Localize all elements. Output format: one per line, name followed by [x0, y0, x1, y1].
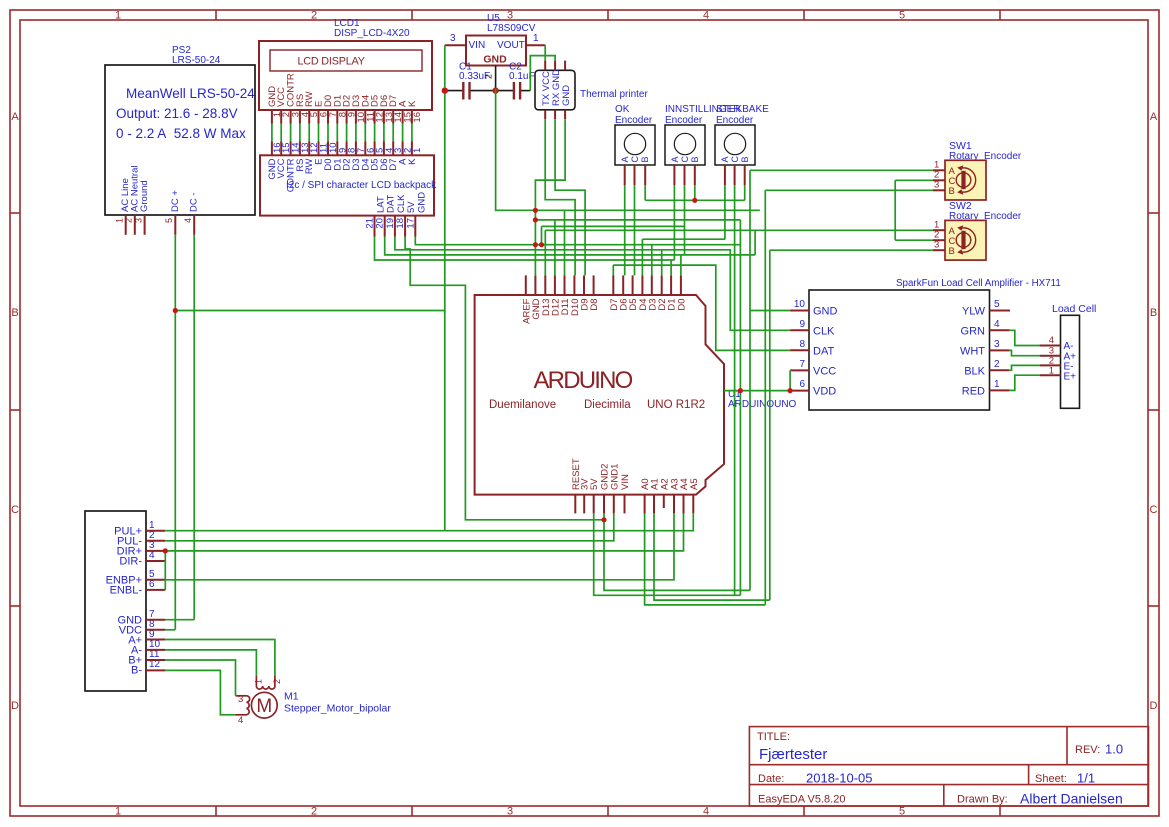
svg-text:A: A	[670, 156, 680, 162]
junction dot at U5 GND / C1 / C2	[492, 87, 498, 93]
wire encoder2 A	[673, 185, 675, 260]
svg-text:K: K	[407, 158, 418, 165]
PS2 pin 2	[124, 215, 135, 235]
svg-text:Fjærtester: Fjærtester	[759, 746, 827, 763]
svg-text:M1: M1	[284, 691, 299, 703]
svg-text:D8: D8	[589, 299, 600, 311]
svg-text:16: 16	[412, 112, 423, 123]
svg-text:2018-10-05: 2018-10-05	[806, 771, 873, 786]
wire D11 column	[564, 210, 566, 275]
wire DC- vertical	[193, 235, 195, 620]
svg-text:CLK: CLK	[813, 326, 835, 338]
power supply PS2	[105, 45, 255, 235]
wire D1 column	[670, 260, 672, 275]
svg-text:VOUT: VOUT	[497, 40, 525, 51]
wire encoder1 C to D5	[634, 185, 636, 275]
wire DIR+ to A4	[165, 513, 683, 551]
svg-text:7: 7	[799, 359, 805, 370]
encoder OK	[615, 104, 655, 185]
svg-text:2: 2	[994, 359, 1000, 370]
node VDD right	[788, 388, 793, 393]
wire PUL- to GND1	[165, 513, 614, 540]
svg-text:TITLE:: TITLE:	[757, 731, 790, 743]
svg-text:4: 4	[994, 319, 1000, 330]
svg-text:B-: B-	[131, 665, 142, 677]
thermal top stubs	[545, 61, 565, 71]
PS2 pin 4	[183, 215, 194, 235]
junction dot at U5 VIN / C1	[442, 87, 448, 93]
svg-text:0 - 2.2 A 52.8 W Max: 0 - 2.2 A 52.8 W Max	[116, 126, 246, 141]
svg-text:2: 2	[311, 10, 317, 22]
wire backpack LAT21 row	[375, 237, 675, 261]
wire A+ to motor pin2	[165, 640, 275, 676]
wire SW1 pin3 row	[765, 189, 933, 191]
wire SW2 pin3 long column	[769, 250, 771, 600]
wire backpack 5V to arduino GND2	[405, 237, 604, 520]
node GND row 210	[533, 208, 538, 213]
svg-text:GRN: GRN	[961, 326, 986, 338]
svg-text:A: A	[11, 111, 19, 123]
svg-text:1: 1	[412, 148, 423, 153]
backpack pin names top (blue vertical)	[267, 158, 418, 192]
svg-text:VDD: VDD	[813, 386, 836, 398]
wire A1 row	[654, 513, 770, 600]
wire LCD to backpack x16	[272, 124, 412, 142]
svg-text:3: 3	[507, 806, 513, 818]
svg-text:B: B	[11, 307, 18, 319]
capacitor C1 0.33uF	[445, 62, 496, 100]
svg-text:SparkFun Load Cell Amplifier -: SparkFun Load Cell Amplifier - HX711	[896, 278, 1061, 289]
wire SW2 pin1 column	[754, 230, 756, 255]
SW2 pins 1,2,3	[933, 230, 945, 250]
wire SW2 pin1 row	[545, 229, 933, 231]
svg-text:ARDUINOUNO: ARDUINOUNO	[728, 399, 797, 410]
backpack bottom pin names	[376, 192, 428, 213]
svg-text:K: K	[407, 100, 418, 107]
wire PUL+ to A5	[165, 513, 693, 530]
svg-text:Output: 21.6 - 28.8V: Output: 21.6 - 28.8V	[116, 106, 238, 121]
svg-text:1: 1	[533, 33, 539, 44]
svg-text:A: A	[620, 156, 630, 162]
regulator U5 L78S09CV	[445, 13, 545, 89]
wire SW2 pin3 row	[770, 249, 933, 251]
wire encoder1 A to D6	[624, 185, 626, 275]
svg-text:Stepper_Motor_bipolar: Stepper_Motor_bipolar	[284, 703, 391, 715]
wire RED to E+	[1009, 375, 1039, 390]
svg-text:5: 5	[899, 806, 905, 818]
wire GND row to stepper	[165, 619, 194, 621]
svg-text:C: C	[730, 156, 740, 163]
node VIN junction	[442, 88, 447, 93]
svg-text:GND1: GND1	[609, 464, 620, 490]
wire WHT to A+	[1009, 350, 1039, 355]
svg-text:A5: A5	[689, 478, 700, 490]
HX711 right stubs	[990, 311, 1011, 391]
wire SW C column	[894, 180, 896, 240]
wire row D4 to encoder3 A	[642, 238, 725, 240]
PS2 pin 1	[115, 215, 126, 235]
arduino bottom pin labels	[571, 458, 700, 490]
svg-text:5: 5	[994, 299, 1000, 310]
svg-text:Duemilanove: Duemilanove	[489, 399, 556, 411]
svg-text:DISP_LCD-4X20: DISP_LCD-4X20	[334, 28, 410, 39]
svg-text:4: 4	[238, 715, 243, 726]
svg-text:C: C	[11, 504, 19, 516]
svg-text:1: 1	[254, 679, 264, 684]
wire encoder3 C long column	[734, 185, 736, 595]
wire SW2 pin2	[895, 239, 933, 241]
svg-text:C: C	[680, 156, 690, 163]
wire B+ to motor pin3	[165, 660, 235, 696]
svg-text:3: 3	[934, 180, 939, 191]
wire arduino 5V row	[594, 513, 741, 595]
svg-text:GND: GND	[483, 53, 507, 65]
wire GRN to A-	[1009, 330, 1039, 345]
svg-text:DAT: DAT	[813, 346, 834, 358]
svg-text:8: 8	[799, 339, 805, 350]
thermal printer connector	[535, 61, 648, 120]
svg-text:E+: E+	[1064, 372, 1077, 383]
svg-text:4: 4	[1049, 335, 1054, 346]
node encoder B common	[692, 198, 697, 203]
motor coil 1	[256, 675, 275, 689]
svg-text:A-: A-	[1064, 341, 1074, 352]
svg-text:2: 2	[311, 806, 317, 818]
wire D7 column	[612, 265, 614, 275]
wire D13 column	[541, 226, 543, 244]
svg-text:3: 3	[133, 218, 143, 223]
motor coil 2	[236, 696, 250, 715]
svg-text:B: B	[1150, 307, 1157, 319]
wire SW1 pin1 long column	[749, 170, 751, 590]
svg-text:UNO R1R2: UNO R1R2	[647, 399, 705, 411]
svg-text:Date:: Date:	[758, 773, 784, 785]
backpack pin numbers (blue)	[272, 142, 423, 153]
svg-text:REV:: REV:	[1075, 744, 1100, 756]
wire D0 column	[680, 255, 682, 276]
svg-text:3: 3	[994, 339, 1000, 350]
svg-text:B: B	[640, 156, 650, 162]
wire SW1 pin1 row	[750, 169, 933, 171]
backpack bottom pin numbers	[365, 218, 417, 229]
svg-text:LCD DISPLAY: LCD DISPLAY	[298, 56, 365, 68]
wire SW1 pin3 long column	[764, 190, 766, 605]
wire D13 column	[544, 230, 546, 275]
node VDD left	[738, 388, 743, 393]
svg-text:10: 10	[794, 299, 806, 310]
node GND2	[601, 517, 606, 522]
svg-text:YLW: YLW	[962, 306, 986, 318]
svg-text:Thermal printer: Thermal printer	[580, 89, 648, 100]
svg-text:B: B	[949, 186, 955, 197]
arduino top pin labels	[521, 298, 687, 324]
svg-text:A: A	[720, 156, 730, 162]
svg-text:GND: GND	[813, 306, 838, 318]
svg-text:3: 3	[450, 33, 456, 44]
wire C2 to thermal pin2	[530, 56, 555, 91]
wire ENBP+ to A3	[165, 513, 674, 579]
svg-text:DIR-: DIR-	[119, 556, 142, 568]
svg-text:GND: GND	[561, 85, 572, 106]
svg-text:4: 4	[703, 806, 709, 818]
node DIR+	[163, 548, 168, 553]
svg-text:MeanWell LRS-50-24: MeanWell LRS-50-24	[126, 86, 255, 101]
svg-text:L78S09CV: L78S09CV	[487, 23, 536, 34]
svg-text:B: B	[740, 156, 750, 162]
svg-text:VIN: VIN	[469, 40, 486, 51]
svg-text:2: 2	[272, 679, 282, 684]
wire VCC jog	[789, 370, 791, 390]
svg-text:1/1: 1/1	[1077, 771, 1095, 786]
wire SW1 pin2	[895, 179, 933, 181]
wire encoder3 A column	[724, 185, 726, 239]
svg-text:VIN: VIN	[620, 474, 631, 490]
svg-text:I2c / SPI character LCD backpa: I2c / SPI character LCD backpack	[286, 180, 437, 191]
encoder INNSTILLINGER	[665, 104, 741, 185]
wire D3 column	[651, 245, 653, 276]
rotary encoder SW1	[933, 140, 1022, 200]
svg-text:DC +: DC +	[170, 190, 181, 212]
svg-text:Diecimila: Diecimila	[584, 399, 631, 411]
wire D13 row 226 to SW C	[542, 225, 685, 227]
wire DC+ vertical	[174, 235, 176, 630]
svg-text:3: 3	[238, 694, 243, 705]
wire row 220 to SW2	[535, 219, 740, 221]
svg-text:D: D	[1150, 700, 1158, 712]
wire encoder2 C	[684, 185, 686, 255]
wire thermal TX to D10	[545, 119, 575, 275]
svg-text:3: 3	[507, 10, 513, 22]
svg-text:B: B	[690, 156, 700, 162]
svg-text:Drawn By:: Drawn By:	[957, 794, 1008, 806]
wire A- to motor pin1	[165, 650, 256, 675]
svg-text:B: B	[949, 246, 955, 257]
svg-text:A: A	[1150, 111, 1158, 123]
wire B- to motor pin4	[165, 670, 235, 714]
TITLEBLOCK	[749, 727, 1148, 807]
U5 pin 1	[526, 44, 545, 46]
svg-text:9: 9	[799, 319, 805, 330]
wire D2 column	[661, 250, 663, 276]
svg-text:M: M	[256, 696, 272, 717]
svg-text:ARDUINO: ARDUINO	[533, 367, 632, 394]
svg-text:D0: D0	[676, 299, 687, 311]
LCD pin numbers	[272, 112, 423, 123]
svg-text:C: C	[1150, 504, 1158, 516]
wire 24V to U5 VIN	[175, 45, 445, 310]
rotary encoder SW2	[933, 200, 1022, 260]
node GND17 row B	[539, 242, 544, 247]
wire DIR+ to ENBL-	[164, 551, 166, 590]
wire backpack CLK19 to HX711 CLK	[395, 237, 790, 331]
svg-text:Load Cell: Load Cell	[1052, 303, 1096, 315]
svg-text:WHT: WHT	[960, 346, 985, 358]
U5 pin 2 GND	[495, 66, 497, 89]
wire BLK to E-	[1009, 365, 1039, 370]
stepper motor M1	[236, 675, 392, 726]
svg-text:C: C	[630, 156, 640, 163]
svg-text:3: 3	[934, 240, 939, 251]
svg-text:2: 2	[124, 218, 134, 223]
wire D12 column	[554, 220, 556, 276]
arduino top stubs	[526, 275, 681, 295]
svg-text:1: 1	[994, 379, 1000, 390]
wire VDD row	[724, 390, 790, 392]
HX711 left stubs	[790, 311, 809, 391]
wire A0 row	[645, 513, 766, 605]
svg-text:1.0: 1.0	[1105, 742, 1123, 757]
svg-text:GND: GND	[416, 192, 427, 213]
svg-text:VCC: VCC	[813, 366, 836, 378]
svg-text:5: 5	[164, 218, 174, 223]
wire VDC row	[165, 629, 175, 631]
I2C backpack box	[260, 155, 437, 215]
node row 220	[533, 217, 538, 222]
svg-text:Albert Danielsen: Albert Danielsen	[1020, 791, 1123, 807]
svg-text:EasyEDA V5.8.20: EasyEDA V5.8.20	[758, 794, 845, 806]
svg-text:1: 1	[115, 10, 121, 22]
wire D4 column	[641, 239, 643, 275]
LCD pin labels	[267, 73, 418, 107]
node GND17 row A	[533, 242, 538, 247]
encoder STEKBAKE	[715, 104, 769, 185]
SW1 pins 1,2,3	[933, 170, 945, 190]
svg-text:4: 4	[703, 10, 709, 22]
svg-text:0.33uF: 0.33uF	[459, 71, 490, 82]
svg-text:BLK: BLK	[964, 366, 985, 378]
wire GND2 row	[604, 513, 750, 590]
wire HX711 GND row	[750, 310, 790, 312]
backpack bottom stubs	[375, 216, 416, 237]
wire VDD column	[739, 220, 741, 595]
thermal bottom stubs	[545, 110, 565, 119]
svg-text:6: 6	[799, 379, 805, 390]
wire U5 GND net	[496, 89, 760, 211]
backpack stubs top	[272, 142, 412, 156]
svg-text:1: 1	[115, 806, 121, 818]
svg-text:4: 4	[183, 218, 193, 223]
svg-text:5: 5	[899, 10, 905, 22]
stepper driver connector	[85, 511, 165, 691]
svg-text:ENBL-: ENBL-	[110, 585, 143, 597]
U5 pin 3	[445, 44, 466, 46]
svg-text:Ground: Ground	[139, 180, 150, 212]
PS2 pin 5	[164, 215, 175, 235]
LCD pin stubs top	[272, 110, 412, 124]
svg-text:D: D	[11, 700, 19, 712]
PS2 pin 3	[133, 215, 144, 235]
wire backpack DAT20 row	[385, 237, 755, 255]
arduino U1	[475, 295, 797, 495]
svg-text:DC -: DC -	[189, 192, 200, 212]
wire D7 row to HX711 DAT	[613, 265, 790, 350]
wire encoder B common	[644, 185, 646, 200]
svg-text:OK: OK	[615, 104, 630, 115]
arduino bottom stubs	[575, 495, 693, 514]
HX711 amplifier	[790, 278, 1061, 410]
wire thermal GND to arduino GND	[535, 119, 565, 275]
wire 24V column continues	[444, 311, 446, 531]
load cell connector	[1040, 303, 1097, 408]
wire thermal RX to D9	[555, 119, 585, 275]
capacitor C2 0.1uF	[496, 62, 535, 100]
svg-text:Sheet:: Sheet:	[1035, 773, 1067, 785]
wire backpack GND17 row	[415, 237, 740, 245]
wire U5 VOUT to thermal VCC	[544, 45, 546, 60]
LCD display LCD1	[259, 18, 432, 110]
node DC+ branch	[173, 308, 178, 313]
svg-text:STEKBAKE: STEKBAKE	[716, 104, 769, 115]
svg-text:RED: RED	[962, 386, 985, 398]
